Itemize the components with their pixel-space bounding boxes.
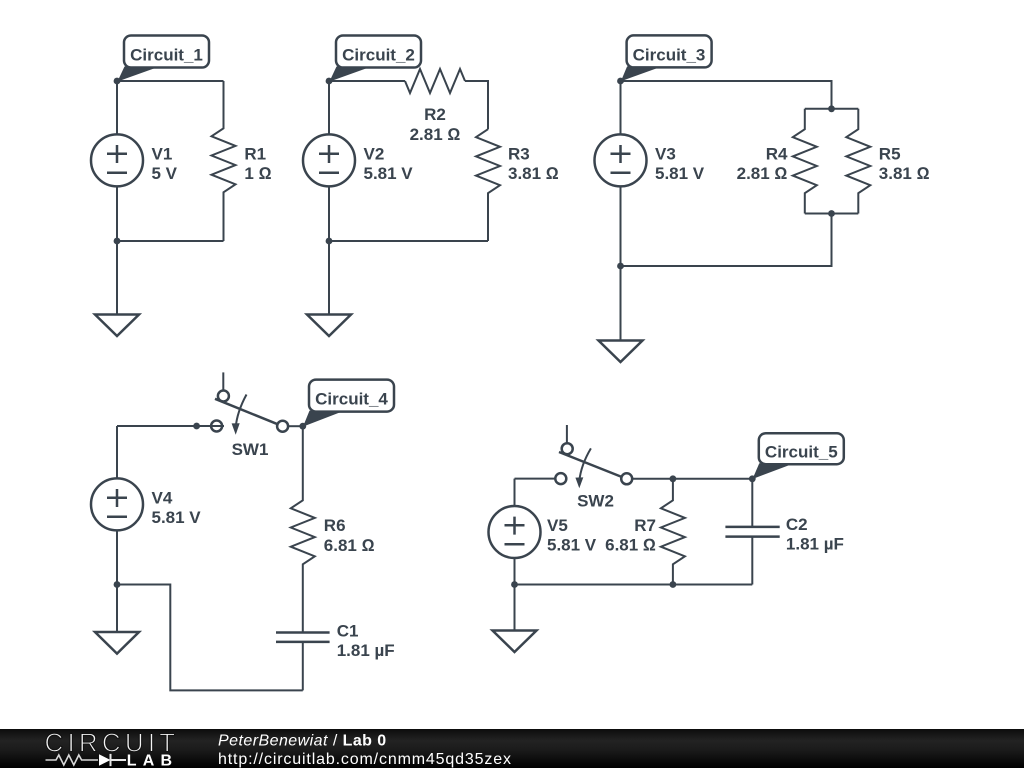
wire bottom rail circuit 1 — [117, 240, 224, 242]
svg-text:R5: R5 — [879, 144, 901, 163]
label V1 5 V — [152, 144, 178, 183]
svg-text:Circuit_4: Circuit_4 — [315, 390, 388, 409]
svg-text:5.81 V: 5.81 V — [152, 508, 202, 527]
svg-text:LAB: LAB — [127, 752, 178, 768]
label SW2 — [577, 492, 614, 511]
wire switch to node circuit 4 — [288, 425, 303, 427]
svg-text:C2: C2 — [786, 515, 808, 534]
wire bottom rail circuit 5 — [515, 584, 753, 586]
svg-text:V4: V4 — [152, 488, 173, 507]
svg-text:3.81 Ω: 3.81 Ω — [879, 164, 930, 183]
ground circuit 1 — [95, 241, 139, 336]
label R5 3.81 Ω — [879, 144, 930, 183]
switch SW2 — [555, 425, 632, 488]
node top circuit 2 — [326, 78, 333, 85]
label C2 1.81 µF — [786, 515, 844, 554]
node top circuit 3 — [617, 78, 624, 85]
wire bottom rail circuit 2 — [329, 240, 488, 242]
label C1 1.81 µF — [337, 622, 395, 661]
voltage source V3 — [595, 81, 647, 266]
svg-text:R1: R1 — [244, 144, 266, 163]
label R1 1 Ω — [244, 144, 271, 183]
ground circuit 2 — [307, 241, 351, 336]
svg-text:5.81 V: 5.81 V — [655, 164, 705, 183]
svg-text:3.81 Ω: 3.81 Ω — [508, 164, 559, 183]
resistor R1 — [212, 81, 236, 241]
label R7 6.81 Ω — [605, 516, 656, 555]
svg-text:5.81 V: 5.81 V — [547, 536, 597, 555]
svg-text:1.81 µF: 1.81 µF — [786, 534, 844, 553]
svg-text:V5: V5 — [547, 516, 568, 535]
CircuitLab logo CIRCUIT — [45, 728, 180, 758]
svg-text:V1: V1 — [152, 144, 173, 163]
svg-text:PeterBenewiat / Lab 0: PeterBenewiat / Lab 0 — [218, 733, 387, 750]
node R6 top circuit 4 — [299, 423, 306, 430]
capacitor C2 — [725, 479, 779, 585]
svg-text:6.81 Ω: 6.81 Ω — [324, 536, 375, 555]
capacitor C1 — [276, 633, 330, 691]
svg-text:5.81 V: 5.81 V — [364, 164, 414, 183]
node bottom circuit 3 — [617, 263, 624, 270]
CircuitLab logo LAB — [127, 752, 178, 768]
svg-text:SW1: SW1 — [232, 440, 269, 459]
node bottom R7 — [670, 581, 677, 588]
footer url — [218, 751, 512, 768]
node parallel top junction — [828, 105, 835, 112]
wire parallel top bar circuit 3 — [805, 108, 859, 110]
wire top rail circuit 2 — [329, 80, 405, 82]
svg-text:R7: R7 — [634, 516, 656, 535]
svg-text:C1: C1 — [337, 622, 359, 641]
label V4 5.81 V — [152, 488, 202, 527]
resistor R4 — [793, 109, 817, 214]
label R6 6.81 Ω — [324, 516, 375, 555]
voltage source V4 — [91, 426, 143, 585]
svg-text:1 Ω: 1 Ω — [244, 164, 271, 183]
label R3 3.81 Ω — [508, 144, 559, 183]
wire bottom rail circuit 3 — [621, 214, 832, 267]
label V3 5.81 V — [655, 144, 705, 183]
wire top rail circuit 1 — [117, 80, 224, 82]
callout Circuit_2 — [329, 36, 421, 82]
footer title PeterBenewiat / Lab 0 — [218, 733, 387, 750]
ground circuit 3 — [599, 266, 643, 362]
wire top rail circuit 3 — [621, 81, 832, 109]
voltage source V2 — [303, 81, 355, 241]
voltage source V1 — [91, 81, 143, 241]
resistor R6 — [291, 426, 315, 632]
resistor R5 — [846, 109, 870, 214]
CircuitLab logo squiggle (resistor + diode) — [46, 754, 127, 766]
node bottom circuit 2 — [326, 238, 333, 245]
node switch-left circuit 4 — [193, 423, 200, 430]
svg-text:1.81 µF: 1.81 µF — [337, 641, 395, 660]
wire switch to C2 corner circuit 5 — [632, 478, 752, 480]
svg-text:Circuit_3: Circuit_3 — [633, 45, 706, 64]
node parallel bottom junction — [828, 210, 835, 217]
svg-text:Circuit_1: Circuit_1 — [130, 46, 203, 65]
resistor R7 — [661, 479, 685, 585]
node bottom V5 — [511, 581, 518, 588]
svg-text:V3: V3 — [655, 144, 676, 163]
svg-text:R3: R3 — [508, 144, 530, 163]
callout Circuit_1 — [117, 36, 209, 82]
callout Circuit_3 — [621, 35, 712, 81]
resistor R3 — [476, 129, 500, 241]
label R4 2.81 Ω — [737, 144, 788, 183]
callout Circuit_5 — [753, 433, 844, 479]
wire top rail circuit 5 — [515, 478, 556, 480]
svg-text:Circuit_5: Circuit_5 — [765, 443, 838, 462]
svg-text:5 V: 5 V — [152, 164, 178, 183]
svg-text:R4: R4 — [766, 144, 788, 163]
label V2 5.81 V — [364, 144, 414, 183]
svg-text:6.81 Ω: 6.81 Ω — [605, 536, 656, 555]
node top circuit 1 — [114, 78, 121, 85]
ground circuit 5 — [493, 585, 537, 653]
ground circuit 4 — [95, 585, 139, 654]
callout Circuit_4 — [303, 380, 394, 427]
svg-text:V2: V2 — [364, 144, 385, 163]
svg-text:http://circuitlab.com/cnmm45qd: http://circuitlab.com/cnmm45qd35zex — [218, 751, 512, 768]
svg-text:SW2: SW2 — [577, 492, 614, 511]
wire parallel bottom bar circuit 3 — [805, 213, 859, 215]
label V5 5.81 V — [547, 516, 597, 555]
footer bar — [0, 729, 1024, 768]
node C2 top circuit 5 — [749, 475, 756, 482]
switch SW1 — [206, 372, 288, 434]
svg-text:2.81 Ω: 2.81 Ω — [410, 125, 461, 144]
wire R2 to corner — [465, 81, 488, 129]
voltage source V5 — [489, 479, 541, 585]
svg-text:2.81 Ω: 2.81 Ω — [737, 164, 788, 183]
svg-text:R2: R2 — [424, 105, 446, 124]
svg-text:Circuit_2: Circuit_2 — [342, 46, 415, 65]
resistor R2 — [405, 69, 465, 93]
label R2 2.81 Ω — [410, 105, 461, 144]
node R7 top circuit 5 — [670, 475, 677, 482]
wire top rail circuit 4 — [117, 425, 224, 427]
node bottom circuit 4 — [114, 581, 121, 588]
wire bottom return circuit 4 — [117, 585, 303, 691]
node bottom circuit 1 — [114, 238, 121, 245]
svg-text:R6: R6 — [324, 516, 346, 535]
label SW1 — [232, 440, 269, 459]
